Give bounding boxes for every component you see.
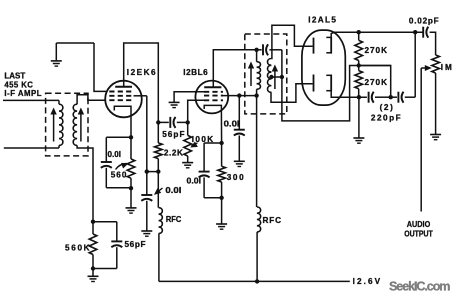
svg-text:300: 300 bbox=[227, 173, 244, 182]
svg-text:RFC: RFC bbox=[166, 215, 181, 224]
svg-text:AUDIO: AUDIO bbox=[407, 219, 431, 229]
svg-text:I-F AMPL: I-F AMPL bbox=[4, 89, 41, 98]
svg-text:0.0I: 0.0I bbox=[108, 150, 122, 159]
svg-text:56pF: 56pF bbox=[125, 240, 146, 249]
svg-text:455 KC: 455 KC bbox=[4, 80, 33, 89]
svg-text:I2AL5: I2AL5 bbox=[308, 16, 336, 25]
svg-text:220pF: 220pF bbox=[371, 114, 401, 123]
svg-text:IM: IM bbox=[441, 63, 452, 72]
svg-text:0.0I: 0.0I bbox=[165, 186, 181, 195]
svg-text:560: 560 bbox=[111, 171, 127, 180]
svg-text:2.2K: 2.2K bbox=[164, 149, 183, 158]
svg-text:560K: 560K bbox=[65, 243, 90, 252]
svg-text:I2BL6: I2BL6 bbox=[183, 68, 208, 77]
svg-text:0.0I: 0.0I bbox=[224, 120, 240, 129]
svg-text:(2): (2) bbox=[380, 103, 393, 112]
svg-text:I2EK6: I2EK6 bbox=[127, 68, 156, 77]
svg-text:270K: 270K bbox=[365, 78, 388, 87]
svg-text:OUTPUT: OUTPUT bbox=[404, 229, 433, 239]
svg-text:SeekIC.com: SeekIC.com bbox=[389, 279, 451, 293]
svg-text:LAST: LAST bbox=[4, 72, 25, 81]
svg-text:270K: 270K bbox=[365, 46, 388, 55]
svg-text:0.02pF: 0.02pF bbox=[409, 16, 439, 25]
svg-text:0.0I: 0.0I bbox=[187, 177, 202, 186]
svg-text:56pF: 56pF bbox=[162, 130, 184, 139]
svg-text:RFC: RFC bbox=[263, 216, 282, 225]
